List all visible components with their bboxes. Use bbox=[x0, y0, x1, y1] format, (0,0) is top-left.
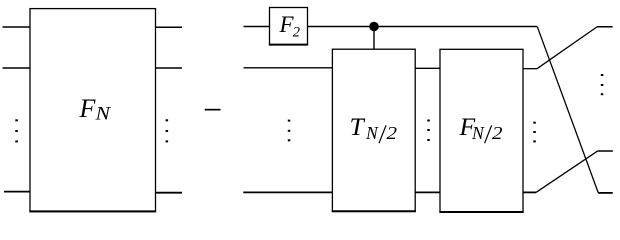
wire into F_2 bbox=[244, 26, 270, 28]
svg-text:F: F bbox=[79, 94, 97, 123]
label F_2 bbox=[279, 12, 301, 41]
wire stem from dot to T box bbox=[373, 27, 375, 50]
box F_2 bbox=[269, 8, 308, 45]
wire output middle right bbox=[598, 150, 613, 152]
vdots left of F_N bbox=[15, 119, 17, 142]
wire input 2 of T_N/2 bbox=[244, 67, 333, 69]
vdots left of T_N/2 bbox=[288, 120, 291, 142]
crossing diagonal row2-to-top bbox=[537, 27, 597, 69]
wire output n of F_N/2 bbox=[523, 191, 536, 193]
box T_N/2 bbox=[332, 49, 416, 211]
wire output 1 of F_N/2 bbox=[523, 68, 537, 70]
vdots far right bbox=[601, 74, 604, 95]
vdots right of F_N/2 bbox=[533, 122, 536, 143]
wire output 2 of F_N bbox=[156, 67, 183, 69]
label F_N/2 bbox=[459, 112, 503, 143]
junction dot bbox=[369, 22, 379, 32]
svg-text:N: N bbox=[365, 123, 379, 143]
svg-text:2: 2 bbox=[293, 25, 301, 41]
wire input n of T_N/2 bbox=[243, 191, 332, 193]
wire output n of F_N bbox=[156, 192, 183, 194]
svg-text:N: N bbox=[94, 105, 112, 125]
svg-text:T: T bbox=[350, 112, 366, 141]
wire input n of F_N bbox=[4, 191, 30, 193]
vdots between T and F bbox=[427, 120, 430, 142]
wire output bottom right bbox=[598, 192, 613, 194]
wire input 1 of F_N bbox=[3, 26, 31, 28]
crossing diagonal rowN-to-mid bbox=[536, 151, 598, 193]
wire T to F row 2 bbox=[415, 67, 440, 69]
wire output top right bbox=[597, 26, 613, 28]
label F_N bbox=[79, 94, 112, 125]
label T_N/2 bbox=[350, 112, 398, 143]
svg-text:2: 2 bbox=[492, 123, 503, 143]
svg-text:2: 2 bbox=[387, 123, 398, 143]
box F_N bbox=[29, 9, 156, 212]
box F_N/2 bbox=[439, 49, 523, 212]
wire from F_2 to crossing (top rail) bbox=[308, 26, 538, 28]
wire output 1 of F_N bbox=[156, 26, 183, 28]
svg-text:N: N bbox=[471, 123, 485, 143]
minus sign bbox=[205, 109, 221, 111]
wire T to F row n bbox=[415, 191, 440, 193]
vdots right of F_N bbox=[166, 119, 169, 142]
crossing diagonal top-to-bottom bbox=[537, 27, 598, 193]
wire input 2 of F_N bbox=[3, 67, 31, 69]
